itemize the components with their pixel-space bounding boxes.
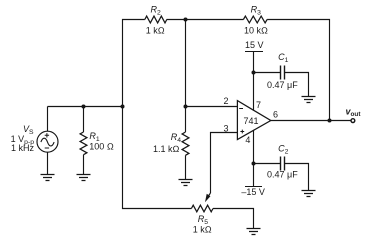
resistor R1 [80,132,87,155]
svg-text:3: 3 [224,123,229,133]
ground symbol source VS [41,175,55,181]
resistor R3 [243,16,267,23]
source VS circle [37,131,58,152]
-15V supply bar [245,186,262,188]
svg-text:–15 V: –15 V [241,187,265,197]
wire pin 7 supply [253,52,255,111]
potentiometer R5 arrowhead [205,194,210,202]
svg-text:1 kΩ: 1 kΩ [193,225,212,235]
resistor R4 [182,132,189,155]
wire input node line [48,106,123,108]
+15V supply bar [245,51,263,53]
svg-text:100 Ω: 100 Ω [89,142,114,152]
svg-text:0.47 μF: 0.47 μF [267,170,298,180]
svg-text:C2: C2 [278,144,289,156]
wire output [271,120,351,122]
svg-text:4: 4 [245,135,250,145]
svg-text:7: 7 [256,100,261,110]
wire top rail middle segment [167,19,244,21]
ground symbol C1 [302,97,316,103]
wire R5 right to ground [213,209,254,229]
svg-text:15 V: 15 V [245,40,264,50]
source VS sine wave [41,138,54,146]
junction pin 2 node [184,105,188,109]
junction input node corner [121,105,125,109]
svg-text:R2: R2 [151,4,162,16]
wire R4 to ground [185,155,187,179]
op-amp minus input sign [239,108,243,110]
ground symbol R4 [179,180,193,186]
svg-text:741: 741 [244,116,259,126]
wire R1 top stub [83,107,85,133]
op-amp plus input sign [240,130,244,134]
source VS minus sign [45,147,49,149]
junction output feedback tap [328,119,332,123]
svg-text:2: 2 [224,96,229,106]
svg-text:C1: C1 [278,52,289,64]
resistor R5 [191,205,213,212]
junction C1 tap [252,71,256,75]
wire pin 2 [186,106,238,108]
potentiometer R5 wiper stem [207,193,211,198]
junction R2/R3 node [184,18,188,22]
wire left vertical down to bottom rail [123,107,192,209]
ground symbol R5 [247,229,261,235]
wire source top stub [47,107,49,132]
svg-text:1 kΩ: 1 kΩ [146,25,165,35]
source VS plus sign [45,133,49,137]
wire C2 left [254,163,281,165]
wire pin 3 [211,133,238,194]
junction R1 tap [82,105,86,109]
wire source bottom stub [47,152,49,174]
svg-text:0.47 μF: 0.47 μF [267,80,298,90]
wire top rail left segment [123,20,145,107]
svg-text:10 kΩ: 10 kΩ [244,25,268,35]
svg-text:1 kHz: 1 kHz [11,143,35,153]
svg-text:1.1 kΩ: 1.1 kΩ [153,144,180,154]
wire C1 left [254,72,281,74]
svg-text:R4: R4 [171,132,182,144]
svg-text:R3: R3 [251,4,262,16]
wire R2/R3 junction down to pin 2 node [185,20,187,107]
junction C2 tap [252,162,256,166]
ground symbol C2 [302,191,316,197]
wire R1 to ground [83,155,85,175]
wire pin 2 node down to R4 [185,107,187,133]
wire top rail right segment and feedback vertical [267,20,329,121]
wire C1 right to ground [285,73,309,97]
op-amp U1 741 triangle [237,101,270,140]
wire C2 right to ground [285,164,309,191]
resistor R2 [145,16,167,23]
ground symbol R1 [77,175,91,181]
capacitor C1 [281,66,285,80]
svg-text:vout: vout [346,107,362,119]
svg-text:6: 6 [273,110,278,120]
output terminal circle [351,119,355,123]
wire pin 4 supply [253,130,255,187]
capacitor C2 [281,157,285,171]
svg-text:VS: VS [23,124,34,136]
